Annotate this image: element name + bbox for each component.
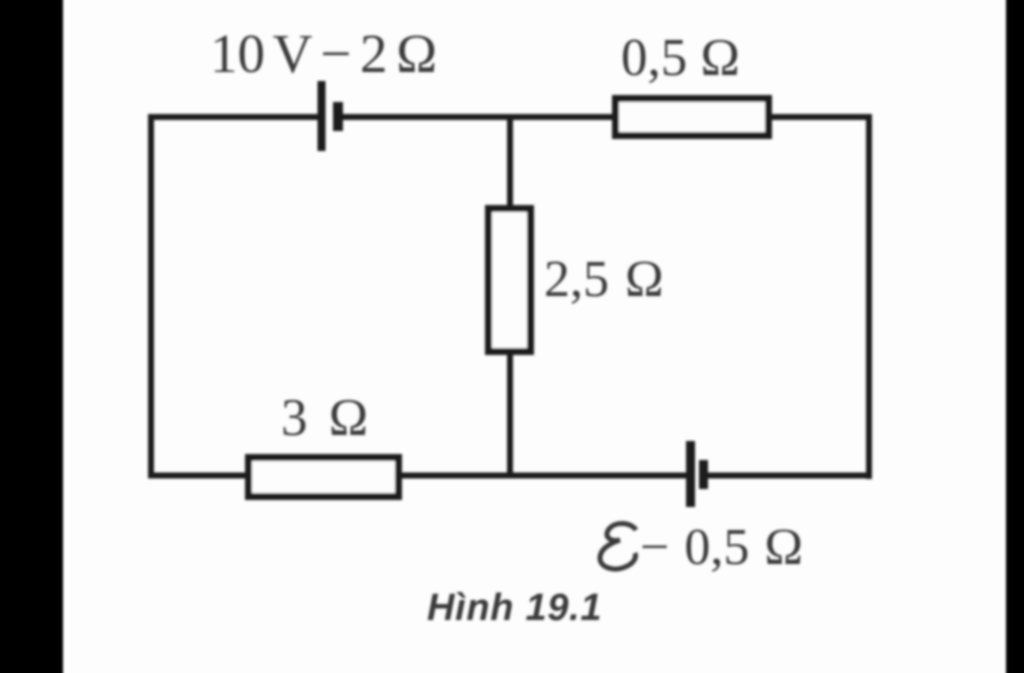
wire top segment right [769, 114, 872, 120]
wire top segment middle [338, 114, 615, 120]
wire bottom segment middle [399, 473, 687, 479]
battery B1 long plate [318, 81, 326, 151]
svg-text:Hình 19.1: Hình 19.1 [427, 587, 602, 629]
wire top segment left [148, 114, 321, 120]
battery B2 short plate [699, 460, 708, 489]
svg-text:2,5 Ω: 2,5 Ω [544, 251, 664, 308]
svg-text:3 Ω: 3 Ω [281, 389, 368, 447]
left black sidebar [0, 0, 63, 673]
resistor 0,5 ohm box [616, 99, 769, 136]
wire middle vertical lower [507, 352, 513, 478]
label EMF script E [600, 523, 636, 568]
wire right vertical [866, 114, 872, 479]
wire bottom segment right [704, 473, 872, 479]
svg-text:0,5 Ω: 0,5 Ω [621, 29, 740, 87]
svg-text:− 0,5 Ω: − 0,5 Ω [640, 519, 803, 576]
battery B2 long plate [686, 441, 695, 507]
svg-text:10 V − 2 Ω: 10 V − 2 Ω [210, 23, 437, 84]
resistor 3 ohm box [249, 458, 399, 497]
right black sidebar [1006, 0, 1024, 673]
wire left vertical [148, 114, 154, 478]
wire middle vertical upper [507, 117, 513, 208]
wire bottom segment left [148, 473, 248, 479]
resistor 2,5 ohm box [489, 209, 531, 352]
battery B1 short plate [333, 102, 343, 131]
